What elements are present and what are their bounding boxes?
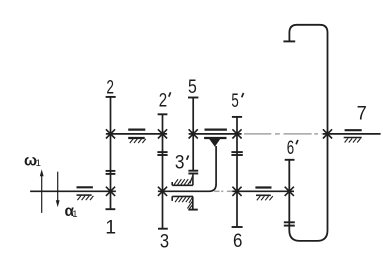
prime mark of 2' xyxy=(169,92,171,96)
wire upper axis segment U4 (shaft 7) xyxy=(323,133,381,135)
shaft of gears 5' and 6 xyxy=(236,117,238,227)
bearing on output shaft 7 xyxy=(345,129,362,131)
carrier arm down to planet axis xyxy=(215,146,217,185)
gear 2' top cap xyxy=(158,113,168,115)
svg-text:5: 5 xyxy=(231,90,238,112)
shaft of gears 2 and 1 xyxy=(110,97,112,209)
shaft 7 stub end cap xyxy=(283,40,295,42)
node cross gear 3 on lower axis xyxy=(158,187,167,196)
node cross gear 2' on upper axis xyxy=(158,129,167,138)
node cross gear 6' on lower axis xyxy=(285,187,294,196)
node cross gear 2 on upper axis xyxy=(106,129,115,138)
gear 1 bottom cap xyxy=(106,208,116,210)
gear 6 bottom cap xyxy=(232,226,243,228)
fixed support bracket of gear 3' lower part xyxy=(172,196,193,209)
gear mesh 2'-3 bars xyxy=(157,151,167,153)
svg-text:1: 1 xyxy=(36,158,41,169)
wire upper axis segment U1 xyxy=(106,133,167,135)
node cross shaft 7 on upper axis xyxy=(323,129,332,138)
node cross gear 6 on lower axis xyxy=(232,187,241,196)
bearing on lower axis at input shaft xyxy=(77,186,93,188)
wire upper axis gray dash-dot U3 xyxy=(244,133,325,135)
shaft of gears 2' and 3 xyxy=(162,114,164,228)
svg-text:6: 6 xyxy=(233,230,242,252)
svg-text:7: 7 xyxy=(357,103,367,125)
hatching of upper bracket xyxy=(174,176,192,184)
gear 6' top cap xyxy=(285,159,295,161)
prime mark of 3' xyxy=(187,155,189,159)
bearing on lower axis between gears 6 and 6' xyxy=(255,186,271,188)
svg-text:1: 1 xyxy=(72,209,77,220)
svg-text:2: 2 xyxy=(106,77,114,99)
arrow omega1 up xyxy=(41,175,43,213)
bearing on upper axis between gears 2 and 2' xyxy=(128,129,145,131)
prime mark of 6' xyxy=(296,140,298,144)
gear 5' top cap xyxy=(232,116,242,118)
gear 2 top cap xyxy=(106,96,116,98)
wire lower axis segment L1 xyxy=(30,190,116,192)
lower bracket foot cap xyxy=(188,209,198,211)
fixed support bracket of gear 3' upper part xyxy=(172,174,193,185)
svg-text:3: 3 xyxy=(160,231,169,253)
gear mesh 5'-6 bars xyxy=(231,151,242,153)
gear mesh 6'-7 bars xyxy=(284,221,295,223)
hatching of lower bracket xyxy=(175,197,192,209)
svg-text:5: 5 xyxy=(188,76,197,98)
wire lower axis segment L2 with carrier bend xyxy=(158,184,216,191)
wire upper axis segment U2 xyxy=(189,133,242,135)
prime mark of 5' xyxy=(242,93,244,97)
svg-text:2: 2 xyxy=(159,89,167,111)
gear 3 bottom cap xyxy=(158,228,168,230)
shaft of gear 5 xyxy=(192,98,194,171)
wire lower axis gray dash-dot xyxy=(214,190,232,192)
svg-text:1: 1 xyxy=(105,216,116,238)
node cross gear 5 on upper axis xyxy=(189,129,198,138)
wire lower axis segment L3 xyxy=(232,190,294,192)
arrow alpha1 down xyxy=(57,172,59,202)
node cross gear 1 on lower axis xyxy=(106,187,115,196)
svg-text:6: 6 xyxy=(287,137,294,159)
svg-text:3: 3 xyxy=(175,152,185,174)
shaft of gear 6' with ring shaft 7 U-loop xyxy=(289,25,327,241)
carrier clamp bars on upper axis xyxy=(205,128,227,130)
gear 5 top cap xyxy=(188,97,198,99)
gear mesh 1-2 bars xyxy=(106,170,116,172)
node cross gear 5' on upper axis xyxy=(232,129,241,138)
gear mesh 5-3' bars xyxy=(188,170,198,172)
carrier triangle mount xyxy=(209,139,220,147)
